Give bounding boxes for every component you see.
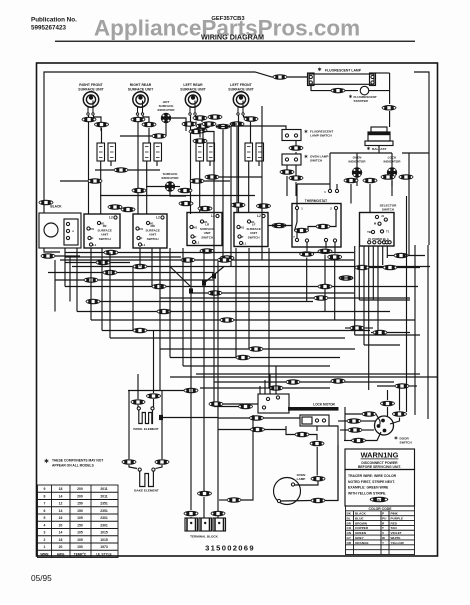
wire [204, 180, 230, 182]
wire [100, 301, 313, 303]
wire [329, 184, 331, 190]
wire [309, 435, 317, 441]
connector left2 [348, 427, 363, 433]
pin [333, 239, 336, 242]
connector bus [220, 317, 235, 323]
svg-text:P: P [92, 237, 94, 241]
wire [64, 248, 66, 287]
svg-text:NOTED FIRST, STRIPE NEXT.: NOTED FIRST, STRIPE NEXT. [348, 480, 395, 484]
wire [169, 248, 171, 358]
connector broil 1 [131, 399, 146, 405]
svg-text:P: P [242, 235, 244, 239]
wire module RR down [146, 161, 148, 214]
thermostat box [292, 204, 341, 248]
fluorescent lamp tube [308, 73, 376, 86]
wire [387, 255, 394, 257]
ballast [365, 127, 393, 146]
svg-text:7: 7 [44, 502, 46, 506]
wire lamp right down [389, 73, 391, 104]
wire gauge table text [40, 487, 111, 556]
surface unit RF [83, 92, 98, 115]
wire [264, 417, 301, 419]
wire [306, 258, 308, 302]
wire [337, 445, 339, 501]
wire [223, 403, 258, 405]
indicator lamp hot surface [161, 113, 171, 123]
svg-text:SURFACE UNIT: SURFACE UNIT [180, 87, 206, 91]
wire surf ind left [146, 186, 165, 188]
pin P [88, 236, 91, 239]
svg-text:GREEN: GREEN [355, 531, 367, 535]
wire [339, 277, 353, 279]
wire selector harness 5 [377, 246, 379, 335]
wire [110, 161, 112, 166]
svg-text:P: P [195, 235, 197, 239]
pin [375, 215, 378, 218]
terminal pin [204, 522, 206, 524]
svg-text:J1: J1 [381, 214, 385, 218]
wire L1 feed [44, 72, 308, 213]
wire [362, 429, 374, 431]
terminal block hatch [201, 518, 210, 531]
wire [175, 186, 180, 188]
connector bus [286, 379, 301, 385]
connector 2 below oven lamp switch [289, 175, 304, 181]
connector below oven ind [344, 178, 359, 184]
svg-text:4: 4 [44, 523, 46, 527]
svg-text:P: P [382, 512, 384, 516]
wire [69, 256, 71, 302]
wire drop 231 [230, 126, 232, 267]
connector bus [236, 355, 251, 361]
svg-text:BEFORE SERVICING UNIT.: BEFORE SERVICING UNIT. [358, 465, 401, 469]
pin [322, 419, 325, 422]
svg-text:UL STYLE: UL STYLE [96, 552, 111, 556]
pin [291, 483, 294, 486]
pin sel 1 [373, 241, 376, 244]
svg-text:SWITCH: SWITCH [382, 207, 395, 211]
pin bake L [138, 468, 141, 471]
broil element [139, 410, 153, 424]
connector LR-2 [196, 123, 211, 129]
wire [171, 311, 390, 313]
pin 7 [295, 238, 298, 241]
connector bus [269, 385, 284, 391]
wire [65, 252, 104, 254]
pin sel 4 [385, 241, 388, 244]
svg-text:THESE COMPONENTS MAY NOT: THESE COMPONENTS MAY NOT [52, 459, 103, 463]
pin [66, 222, 69, 225]
wire bus extra [65, 256, 181, 258]
wire indicator feed drop [329, 153, 331, 184]
svg-text:o: o [72, 229, 74, 233]
wire bus [183, 365, 330, 367]
wire right drop 1 [414, 245, 416, 415]
connector RR-1 [131, 117, 146, 123]
connector lamp feed [273, 74, 288, 80]
wire [55, 279, 84, 281]
wire [409, 385, 417, 387]
pin H1 [97, 221, 100, 224]
connector ballast top [382, 105, 397, 111]
svg-text:WHITE: WHITE [391, 536, 401, 540]
connector bus [318, 284, 333, 290]
wire [222, 292, 354, 294]
bake element [140, 471, 154, 486]
connector above boxes 3 [231, 202, 246, 208]
wire LR lead left [190, 116, 192, 215]
svg-text:1: 1 [44, 545, 46, 549]
svg-text:GN: GN [347, 531, 352, 535]
svg-text:2301: 2301 [100, 516, 108, 520]
connector left of lock 3 [249, 415, 264, 421]
fluorescent lamp switch [282, 130, 301, 141]
ballast fill [368, 132, 390, 135]
wire to module LR [202, 129, 204, 141]
connector oven lamp 2 [311, 498, 326, 504]
connector ds top [380, 401, 395, 407]
wire to module RR [148, 128, 150, 143]
svg-text:THERMOSTAT: THERMOSTAT [305, 199, 327, 203]
svg-text:VIOLET: VIOLET [391, 531, 402, 535]
connector ground [227, 497, 242, 503]
wire above lamp connector [316, 447, 318, 476]
wire [218, 429, 251, 431]
connector [88, 178, 103, 184]
svg-text:PL POWER BL A: PL POWER BL A [368, 237, 389, 241]
wire RF lead right [94, 116, 102, 132]
pin [66, 236, 69, 239]
surface unit RR [133, 92, 148, 115]
connector TB mid [197, 491, 212, 497]
wire [77, 311, 157, 313]
connector below therm 2 [318, 249, 333, 255]
svg-text:INDICATOR: INDICATOR [158, 108, 176, 112]
wire [296, 232, 298, 239]
wire RF lead left [88, 116, 90, 215]
connector LR-1 [193, 115, 208, 121]
wire [325, 242, 327, 248]
wire LB1 down [190, 291, 192, 510]
pin N1 [237, 225, 240, 228]
svg-text:5995267423: 5995267423 [31, 25, 67, 32]
surface unit LF [233, 92, 248, 115]
connector bus [314, 295, 329, 301]
door switch pin top [381, 419, 385, 423]
border frame [37, 63, 438, 556]
wire [366, 432, 382, 441]
wire [166, 286, 318, 288]
tracer note box [345, 470, 415, 507]
svg-text:LAMP SWITCH: LAMP SWITCH [310, 134, 333, 138]
svg-text:N1: N1 [140, 227, 144, 231]
wire [371, 332, 373, 334]
wire therm internal 3 [295, 210, 298, 231]
svg-text:∗: ∗ [317, 67, 322, 73]
svg-text:ORANGE: ORANGE [355, 541, 369, 545]
connector right of hot ind [189, 129, 204, 135]
wire gauge table [38, 485, 119, 558]
wire [389, 111, 391, 127]
wire [399, 386, 401, 411]
wire [332, 286, 418, 288]
connector therm internal 1 [316, 224, 331, 230]
warning box [345, 449, 415, 470]
connector lock 2 [310, 441, 325, 447]
wire trunk diagonal right [204, 267, 224, 284]
fluorescent starter [360, 86, 369, 95]
pin P [137, 236, 140, 239]
svg-text:FLUORESCENT LAMP: FLUORESCENT LAMP [325, 68, 362, 72]
pin sel 5 [388, 241, 391, 244]
connector cluster c [202, 121, 217, 127]
svg-text:LAMP: LAMP [297, 477, 306, 481]
wire lamp top right [376, 72, 390, 74]
connector hot ind [152, 133, 167, 139]
connector ds left [362, 411, 377, 417]
wire [334, 242, 336, 254]
svg-text:150: 150 [77, 502, 83, 506]
wire [345, 327, 350, 329]
terminal pin [190, 522, 192, 524]
svg-text:∗: ∗ [348, 94, 352, 100]
wire [408, 153, 410, 256]
pin H1 [247, 220, 250, 223]
connector left of lock 2 [238, 404, 253, 410]
wire cluster [199, 134, 201, 138]
wire [128, 169, 160, 171]
wire from hot indicator [165, 123, 167, 136]
wire cluster [195, 122, 197, 125]
pin sel 0 [368, 241, 371, 244]
wire [101, 248, 103, 331]
junction broil right [159, 415, 163, 420]
pin L1 [89, 243, 92, 246]
connector oven lamp 1 [311, 476, 326, 482]
switch RF surface unit switch [84, 214, 120, 248]
svg-text:SURFACE UNIT: SURFACE UNIT [78, 87, 104, 91]
svg-text:3: 3 [44, 531, 46, 535]
pin sel 3 [382, 241, 385, 244]
wire starter right [369, 90, 390, 92]
svg-text:N1: N1 [194, 226, 198, 230]
svg-text:BLACK: BLACK [50, 205, 62, 209]
wire [344, 440, 352, 442]
wire [250, 357, 340, 359]
pin M [378, 222, 381, 225]
connector bake 2 [155, 459, 170, 465]
connector RF-2 [94, 122, 109, 128]
connector [205, 174, 220, 180]
svg-text:GREY: GREY [355, 536, 365, 540]
wire lock right down [329, 426, 338, 445]
wire [263, 348, 355, 350]
selector switch box [360, 213, 395, 247]
wire selector harness 2 [363, 246, 365, 345]
wire [117, 272, 214, 274]
svg-text:TRACER WIRE: WIRE COLOR: TRACER WIRE: WIRE COLOR [348, 474, 397, 478]
wire [219, 499, 227, 501]
wire [190, 260, 192, 291]
connector above boxes 4 [256, 203, 271, 209]
wire [265, 426, 287, 430]
wire [350, 184, 352, 204]
wire lamp to lock [325, 445, 338, 501]
pin [266, 397, 269, 400]
pin [371, 81, 374, 84]
svg-text:1973: 1973 [100, 545, 108, 549]
wire [258, 161, 260, 166]
svg-text:SWITCH: SWITCH [147, 237, 159, 241]
svg-text:20: 20 [59, 523, 63, 527]
wire [369, 267, 420, 269]
wire bake feed 1 [128, 391, 130, 460]
power connector block [39, 213, 81, 248]
connector RF-1 [82, 117, 97, 123]
connector RR-2 [142, 122, 157, 128]
connector bus [157, 309, 172, 315]
svg-text:18: 18 [59, 487, 63, 491]
pin [277, 499, 280, 502]
tracer example connector [370, 497, 389, 503]
connector cluster b [182, 121, 197, 127]
svg-text:BROWN: BROWN [355, 521, 368, 525]
svg-text:SWITCH: SWITCH [310, 159, 323, 163]
wire [295, 141, 297, 148]
wire lock ind top [391, 153, 393, 168]
pin T1 [380, 230, 383, 233]
svg-text:N1: N1 [241, 226, 245, 230]
wire drop 223 [222, 130, 224, 258]
svg-text:9: 9 [44, 487, 46, 491]
wire therm internal 1 [330, 210, 336, 227]
lock assembly [300, 415, 329, 426]
wire selector harness 0 [354, 246, 356, 335]
svg-text:20: 20 [59, 545, 63, 549]
connector [394, 253, 409, 259]
wire selector harness 1 [358, 246, 360, 300]
terminal pin [218, 522, 220, 524]
connector below lock [295, 432, 310, 438]
svg-text:105: 105 [77, 516, 83, 520]
connector below box3 [200, 248, 215, 254]
svg-text:18: 18 [59, 538, 63, 542]
connector bus [208, 290, 223, 296]
connector right of lock ind [399, 174, 414, 180]
pin [335, 189, 338, 192]
wire [369, 184, 371, 213]
wire [295, 165, 297, 178]
wire bus [196, 373, 420, 375]
wire [90, 248, 92, 320]
pin broil R [151, 407, 154, 410]
svg-text:1015: 1015 [100, 538, 108, 542]
indicator lamp surface [165, 181, 175, 191]
wire [137, 405, 139, 407]
terminal block [185, 518, 226, 531]
wire into lockbox 4 [275, 366, 277, 394]
wire [283, 387, 330, 389]
svg-text:200: 200 [77, 487, 83, 491]
pin 2 [334, 206, 337, 209]
wire [376, 414, 380, 425]
wire [268, 248, 270, 388]
connector bus [184, 388, 199, 394]
wire LR lead right [196, 116, 203, 123]
connector left3 [351, 438, 366, 444]
svg-text:WIRE: WIRE [40, 552, 48, 556]
svg-text:BLUE: BLUE [355, 517, 363, 521]
wire ground right [241, 415, 253, 500]
lock assembly inner [302, 417, 312, 424]
pin P [191, 235, 194, 238]
junction [189, 288, 193, 293]
wire selector harness 7 [386, 246, 388, 258]
svg-text:WIRING DIAGRAM: WIRING DIAGRAM [201, 32, 264, 41]
pin N1 [87, 227, 90, 230]
svg-text:200: 200 [77, 494, 83, 498]
wire [408, 255, 425, 257]
surface unit LR [185, 92, 200, 115]
wire [209, 161, 211, 166]
svg-text:YELLOW: YELLOW [391, 541, 404, 545]
svg-text:12: 12 [59, 502, 63, 506]
wire [147, 330, 370, 332]
wire [391, 178, 393, 187]
svg-text:PU: PU [382, 517, 387, 521]
wire [235, 248, 237, 358]
svg-text:14: 14 [59, 531, 63, 535]
connector left1 [347, 418, 362, 424]
switch RR surface unit switch [133, 214, 167, 248]
wire selector harness 4 [372, 246, 374, 300]
pin TB [371, 230, 374, 233]
wire harness return 2 [359, 299, 410, 301]
wire [345, 413, 362, 415]
wire LB3 down [217, 260, 219, 518]
svg-text:∗: ∗ [304, 154, 308, 160]
wire LF lead right [244, 116, 251, 123]
svg-text:PINK: PINK [391, 512, 399, 516]
wire [300, 381, 394, 383]
wire [195, 259, 217, 261]
wire [356, 178, 358, 187]
wire [295, 152, 297, 154]
wire LF lead left [238, 116, 240, 213]
svg-text:105: 105 [77, 531, 83, 535]
svg-text:L1: L1 [243, 242, 247, 246]
wire [361, 420, 375, 422]
svg-text:L2: L2 [156, 216, 160, 220]
connector [355, 265, 370, 271]
wire left column extra [54, 260, 56, 312]
svg-text:150: 150 [77, 523, 83, 527]
pin N1 [190, 225, 193, 228]
svg-text:14: 14 [59, 494, 63, 498]
connector [383, 265, 398, 271]
pin [294, 134, 297, 137]
svg-text:PURPLE: PURPLE [391, 517, 404, 521]
pin L2 [161, 216, 164, 219]
wire [248, 248, 250, 349]
svg-text:TB: TB [367, 230, 371, 234]
switch LR surface unit switch [187, 213, 222, 246]
wire [402, 152, 429, 154]
svg-text:RED: RED [391, 521, 398, 525]
color code text [347, 512, 404, 545]
svg-text:WITH YELLOW STRIPE.: WITH YELLOW STRIPE. [348, 491, 386, 495]
wire [377, 385, 395, 387]
